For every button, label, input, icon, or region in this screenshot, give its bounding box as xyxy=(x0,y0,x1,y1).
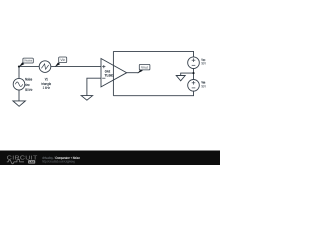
svg-text:sine: sine xyxy=(25,83,30,87)
wire: op-amp - input to ground xyxy=(87,78,101,95)
svg-text:V1: V1 xyxy=(45,77,48,81)
junction dot supply midpoint xyxy=(192,72,194,74)
net flag Vnoise xyxy=(19,58,33,67)
svg-text:80 kHz: 80 kHz xyxy=(25,88,32,92)
label Vee 10 V xyxy=(201,81,206,89)
CircuitLab logo waveform xyxy=(7,160,24,164)
svg-text:Noise: Noise xyxy=(25,78,32,82)
wire: node Vnoise down to noise source top xyxy=(18,67,20,79)
wire: Vcc bottom to Vee top xyxy=(193,69,195,80)
svg-text:TL081: TL081 xyxy=(105,74,114,78)
ground (op-amp - input) xyxy=(81,96,92,101)
svg-text:Vin: Vin xyxy=(60,58,65,62)
footer bar xyxy=(0,151,220,166)
label V1 triangle 1 kHz xyxy=(41,77,51,90)
svg-text:http://circuitlab.com/c/qpk6eg: http://circuitlab.com/c/qpk6eg xyxy=(42,160,75,164)
net flag Vin xyxy=(55,57,67,67)
op-amp supply pins vertical line xyxy=(112,51,114,95)
net flag Vout xyxy=(138,64,150,73)
svg-text:OA2: OA2 xyxy=(105,69,111,73)
voltage source Vcc 10 V xyxy=(188,57,200,69)
op-amp OA2 TL081 body xyxy=(101,59,127,87)
label Vcc 10 V xyxy=(201,58,206,66)
op-amp + input marker xyxy=(102,66,105,68)
wire: Vee bottom to bottom rail to op-amp V- pin xyxy=(113,91,193,96)
svg-text:Vnoise: Vnoise xyxy=(24,59,32,63)
wire: op-amp output to Vout flag xyxy=(127,72,139,74)
voltage source Vee 10 V xyxy=(188,80,200,92)
wire: top supply rail to Vcc top xyxy=(113,51,193,57)
svg-text:1 kHz: 1 kHz xyxy=(43,86,51,90)
svg-text:10 V: 10 V xyxy=(201,62,206,66)
wire: noise source bottom to ground xyxy=(18,90,20,101)
svg-text:10 V: 10 V xyxy=(201,85,206,89)
svg-text:LAB: LAB xyxy=(29,160,35,164)
wire: V1 right terminal to op-amp + input xyxy=(51,66,101,68)
wire: supply midpoint to ground arrow xyxy=(181,73,194,75)
ground (below noise source) xyxy=(13,101,26,106)
svg-text:Vout: Vout xyxy=(141,65,148,69)
junction dot node Vnoise xyxy=(18,66,20,68)
label OA2 TL081 xyxy=(105,69,114,77)
voltage source V1 (triangle 1 kHz) xyxy=(39,61,51,73)
op-amp - input marker xyxy=(102,77,105,79)
voltage source Noise (sine 80 kHz) xyxy=(13,78,25,90)
label Noise sine 80 kHz xyxy=(25,78,32,92)
CircuitLab logo LAB badge xyxy=(28,160,35,163)
ground (supply midpoint) xyxy=(176,76,185,81)
wire: node Vnoise to V1 left terminal xyxy=(19,66,39,68)
